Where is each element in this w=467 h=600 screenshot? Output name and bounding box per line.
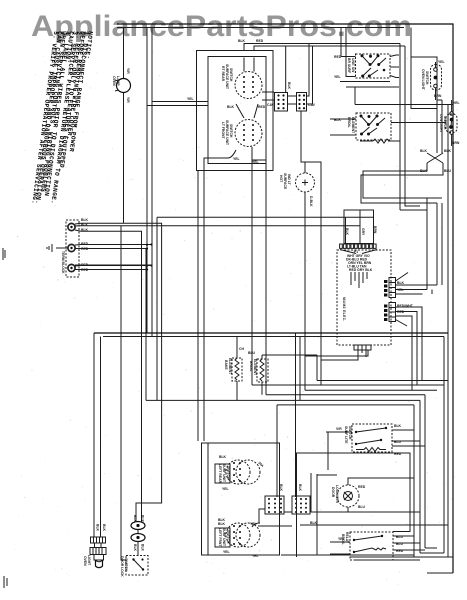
svg-text:BLK: BLK [141, 515, 145, 523]
svg-text:YEL: YEL [222, 487, 229, 491]
svg-text:YEL: YEL [252, 160, 259, 164]
svg-text:LIGHT: LIGHT [87, 555, 91, 566]
svg-text:LOCK MTR: LOCK MTR [335, 485, 339, 503]
svg-text:M1/M2 ELEC.: M1/M2 ELEC. [342, 297, 346, 322]
svg-text:CH: CH [239, 347, 244, 351]
svg-text:BLK: BLK [397, 281, 405, 285]
svg-text:YEL: YEL [453, 101, 460, 105]
svg-text:YEL: YEL [233, 157, 240, 161]
svg-text:BLK: BLK [96, 524, 100, 532]
svg-text:YEL: YEL [334, 75, 341, 79]
svg-text:SURFACE UNIT: SURFACE UNIT [225, 64, 229, 90]
svg-text:OVEN LIGHT: OVEN LIGHT [421, 69, 425, 91]
svg-text:BLK: BLK [287, 82, 291, 90]
svg-text:BLK: BLK [81, 218, 89, 222]
svg-text:SWITCH: SWITCH [348, 426, 352, 440]
svg-text:V/R: V/R [336, 427, 342, 431]
svg-text:BLK: BLK [238, 39, 246, 43]
svg-text:D-BLK: D-BLK [309, 196, 313, 207]
svg-text:BRN: BRN [452, 141, 460, 145]
svg-text:LEFT FRNT: LEFT FRNT [218, 528, 222, 547]
svg-text:SWITCH: SWITCH [226, 466, 230, 480]
svg-text:RED: RED [358, 485, 366, 489]
svg-text:BLK: BLK [279, 484, 283, 492]
svg-text:BAKE: BAKE [224, 360, 228, 370]
svg-text:SWITCH: SWITCH [425, 71, 429, 85]
svg-text:BLK: BLK [310, 521, 318, 525]
svg-text:RED: RED [394, 452, 402, 456]
svg-text:ELEMENT: ELEMENT [351, 117, 355, 134]
svg-text:YEL: YEL [223, 550, 230, 554]
svg-text:SURF UNIT: SURF UNIT [222, 528, 226, 547]
svg-text:CAV: CAV [267, 103, 275, 107]
svg-text:BLK: BLK [219, 455, 227, 459]
svg-text:SWITCH: SWITCH [229, 68, 233, 82]
svg-text:RT REAR: RT REAR [221, 66, 225, 82]
svg-text:RED: RED [256, 39, 264, 43]
svg-text:BLU: BLU [358, 505, 366, 509]
svg-text:ELEMENT: ELEMENT [253, 359, 257, 376]
svg-text:SWITCH: SWITCH [229, 124, 233, 138]
svg-text:BLK: BLK [133, 544, 137, 552]
svg-text:SURFACE UNIT: SURFACE UNIT [225, 120, 229, 146]
svg-text:GRY: GRY [361, 228, 365, 236]
svg-text:DOOR: DOOR [331, 487, 335, 498]
svg-text:30A: 30A [257, 461, 265, 469]
svg-text:BROIL: BROIL [249, 361, 253, 372]
svg-text:LEFT REAR: LEFT REAR [218, 464, 222, 484]
svg-text:BLK: BLK [218, 522, 226, 526]
svg-text:UNIT SW: UNIT SW [351, 58, 355, 73]
svg-text:SWITCH: SWITCH [226, 530, 230, 544]
svg-text:BLK: BLK [420, 169, 428, 173]
svg-text:Y/R: Y/R [126, 68, 130, 74]
svg-text:DOOR LOCK: DOOR LOCK [120, 556, 124, 577]
svg-text:BLK: BLK [420, 149, 428, 153]
svg-text:BROIL: BROIL [347, 117, 351, 128]
svg-text:BLK: BLK [133, 515, 137, 523]
svg-text:BR SURF: BR SURF [347, 58, 351, 73]
svg-text:HOT: HOT [279, 175, 283, 183]
svg-text:BLK: BLK [298, 484, 302, 492]
svg-text:SWITCH: SWITCH [124, 558, 128, 572]
svg-text:BLK: BLK [227, 105, 235, 109]
svg-text:RED GRY BLK: RED GRY BLK [349, 268, 373, 272]
svg-text:TERM BLOCK: TERM BLOCK [61, 251, 65, 274]
svg-text:BLK: BLK [394, 424, 402, 428]
svg-text:BLU: BLU [248, 351, 256, 355]
svg-text:BRN: BRN [373, 226, 377, 234]
svg-text:LT FRONT: LT FRONT [221, 122, 225, 139]
svg-text:BLK: BLK [345, 228, 349, 236]
svg-text:SURF LITE: SURF LITE [344, 426, 348, 444]
svg-text:OVEN: OVEN [83, 556, 87, 566]
svg-text:ELEMENT: ELEMENT [228, 358, 232, 375]
svg-text:SURFACE: SURFACE [283, 173, 287, 190]
svg-text:YEL: YEL [252, 554, 259, 558]
svg-text:YEL: YEL [187, 97, 194, 101]
svg-text:SURF UNIT: SURF UNIT [222, 464, 226, 483]
svg-text:SWITCH: SWITCH [443, 116, 447, 130]
svg-text:YEL: YEL [438, 60, 445, 64]
svg-text:BLK: BLK [141, 544, 145, 552]
svg-text:OVEN: OVEN [112, 76, 116, 86]
svg-text:Y/R: Y/R [126, 97, 130, 103]
svg-text:LAMP: LAMP [116, 76, 120, 86]
svg-text:YEL: YEL [338, 537, 345, 541]
svg-text:BLK: BLK [102, 524, 106, 532]
svg-text:IND LT: IND LT [287, 174, 291, 186]
